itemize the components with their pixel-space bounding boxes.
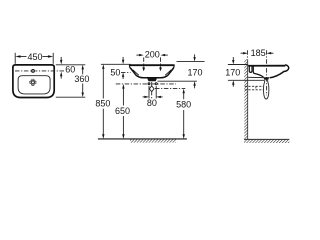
svg-text:170: 170 — [187, 68, 202, 78]
svg-text:650: 650 — [115, 106, 130, 116]
svg-text:170: 170 — [225, 68, 240, 78]
svg-text:580: 580 — [176, 100, 191, 110]
svg-text:850: 850 — [95, 99, 110, 109]
svg-text:80: 80 — [147, 98, 157, 108]
svg-text:360: 360 — [74, 74, 89, 84]
svg-text:50: 50 — [110, 68, 120, 78]
svg-text:185: 185 — [251, 48, 266, 58]
svg-text:450: 450 — [27, 52, 42, 62]
svg-text:200: 200 — [145, 49, 160, 59]
